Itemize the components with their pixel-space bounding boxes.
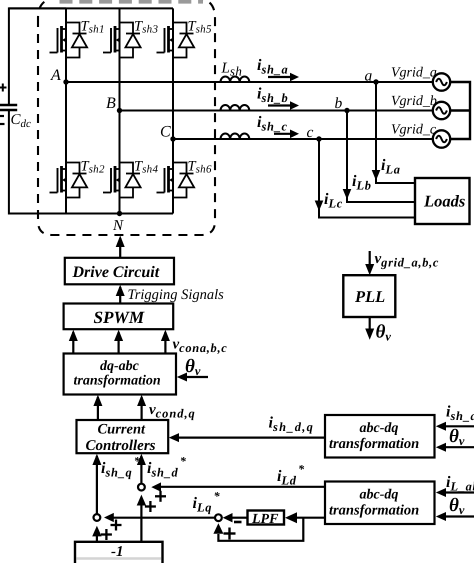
node B xyxy=(106,95,122,113)
svg-text:b: b xyxy=(335,95,343,112)
transistor Tsh1 xyxy=(50,19,105,58)
arrow SPWM to Drive Circuit xyxy=(116,285,125,304)
junction c xyxy=(307,124,322,142)
wire load branch a xyxy=(376,82,415,183)
SPWM box xyxy=(64,304,174,330)
junction b xyxy=(335,95,350,113)
svg-text:Current: Current xyxy=(98,421,147,437)
plus sign S2 bottom input xyxy=(101,529,112,540)
source Vgrid_a xyxy=(391,65,450,90)
arrow dq-abc to SPWM 3 xyxy=(161,330,170,354)
wire i_sh_d,q from abc-dq to Current Controllers xyxy=(169,415,325,443)
plus sign S1 bottom input xyxy=(145,501,156,512)
inductor phase c xyxy=(221,133,250,139)
arrow dq-abc to SPWM 1 xyxy=(69,330,78,354)
wire -1 to S2 xyxy=(92,526,101,542)
wire phase a xyxy=(66,81,433,83)
inverter leg 2 wire xyxy=(119,8,121,213)
wire right neutral bus xyxy=(450,82,470,139)
arrow i_Lc xyxy=(315,191,343,211)
arrow i_Lb xyxy=(343,173,372,200)
svg-text:C: C xyxy=(160,124,171,141)
wire LPF to S3 xyxy=(223,513,248,522)
svg-text:Lsh: Lsh xyxy=(221,61,243,79)
svg-text:B: B xyxy=(106,95,116,112)
wire bus to phase b xyxy=(450,109,470,111)
transistor Tsh3 xyxy=(103,19,158,58)
inverter leg 3 wire xyxy=(172,8,174,213)
DC-link left wire (lower) xyxy=(9,110,66,214)
svg-text:N: N xyxy=(112,218,124,234)
transistor Tsh5 xyxy=(157,19,212,58)
svg-text:abc-dq: abc-dq xyxy=(360,488,399,503)
arrow i_L_abc into abc-dq2 xyxy=(436,474,474,497)
dq-abc transformation box xyxy=(64,354,176,395)
wire phase c xyxy=(173,138,433,140)
plus sign S3 bottom input xyxy=(224,528,236,540)
arrow i_sh_q* into Current Controllers xyxy=(92,454,140,514)
svg-text:Vgrid_b: Vgrid_b xyxy=(391,94,437,109)
LPF box xyxy=(248,511,285,528)
source Vgrid_c xyxy=(391,122,450,147)
DC-link left wire (upper) xyxy=(9,8,66,105)
plus sign S2 right input xyxy=(111,520,122,531)
junction a xyxy=(365,68,379,85)
Drive Circuit box xyxy=(65,258,174,285)
abc-dq transformation box 2 xyxy=(325,482,435,525)
current label i_sh_a with arrow xyxy=(257,57,299,81)
node A xyxy=(50,67,69,85)
arrow CurrentControllers to dq-abc 2 xyxy=(137,395,146,420)
svg-text:transformation: transformation xyxy=(329,502,419,518)
transistor Tsh4 xyxy=(103,159,158,198)
node N xyxy=(112,211,124,234)
wire abc-dq2 to LPF xyxy=(285,512,325,523)
dashed rounded box around shunt inverter xyxy=(38,0,215,235)
wire phase b xyxy=(120,110,434,112)
wire loop to S3 bottom input xyxy=(213,518,303,541)
current label i_sh_c with arrow xyxy=(257,114,299,138)
svg-text:abc-dq: abc-dq xyxy=(360,421,399,436)
top DC rail xyxy=(9,7,173,9)
transistor Tsh2 xyxy=(50,159,105,198)
svg-text:c: c xyxy=(307,124,314,141)
svg-text:Vgrid_c: Vgrid_c xyxy=(391,122,437,137)
PLL box xyxy=(343,275,395,317)
svg-text:Controllers: Controllers xyxy=(86,438,156,454)
capacitor Cdc plates xyxy=(0,105,17,110)
label theta_v into dq-abc xyxy=(177,356,208,382)
svg-text:PLL: PLL xyxy=(354,287,385,306)
svg-text:a: a xyxy=(365,68,373,85)
wire i_Ld* from abc-dq2 to S1 xyxy=(151,462,325,492)
arrow i_sh_abc into abc-dq1 xyxy=(436,404,474,431)
svg-text:Trigging Signals: Trigging Signals xyxy=(128,287,225,303)
plus sign S1 right input xyxy=(155,491,166,502)
current label i_sh_b with arrow xyxy=(257,86,299,110)
summing node S3 xyxy=(215,514,222,521)
arrow into inverter from Drive Circuit xyxy=(116,236,125,258)
arrow i_sh_d* into Current Controllers xyxy=(137,454,187,484)
arrow theta_v into abc-dq1 xyxy=(436,426,474,452)
arrow i_La xyxy=(372,157,401,181)
wire load branch c xyxy=(319,139,415,218)
svg-text:transformation: transformation xyxy=(74,374,161,389)
arrow theta_v into abc-dq2 xyxy=(436,495,474,521)
svg-text:transformation: transformation xyxy=(329,436,419,452)
arrow CurrentControllers to dq-abc 1 xyxy=(93,395,102,420)
summing node S2 xyxy=(94,514,101,521)
wire S3 to S2 (i_Lq*) xyxy=(104,489,221,522)
inductor Lsh phase a xyxy=(221,61,250,83)
-1 box xyxy=(75,542,163,563)
transistor Tsh6 xyxy=(157,159,212,198)
bottom DC rail xyxy=(9,213,173,215)
node C xyxy=(160,124,176,142)
svg-text:-1: -1 xyxy=(111,544,124,560)
Loads box xyxy=(415,178,470,224)
abc-dq transformation box 1 xyxy=(325,415,435,458)
svg-text:dq-abc: dq-abc xyxy=(100,359,140,374)
arrow dq-abc to SPWM 2 xyxy=(114,330,123,354)
svg-text:Loads: Loads xyxy=(423,192,465,211)
plus polarity mark xyxy=(0,84,7,92)
wire -1 to S1 xyxy=(137,495,146,542)
source Vgrid_b xyxy=(391,94,450,119)
svg-text:Drive Circuit: Drive Circuit xyxy=(72,264,160,281)
svg-text:SPWM: SPWM xyxy=(94,308,145,327)
minus sign S3 input xyxy=(234,521,242,524)
grey dashed boundary (cut off at top) xyxy=(60,0,204,4)
svg-text:LPF: LPF xyxy=(251,512,279,527)
inverter leg 1 wire xyxy=(65,8,67,213)
arrow v_grid into PLL xyxy=(365,251,439,275)
summing node S1 xyxy=(138,484,145,491)
svg-text:A: A xyxy=(50,67,61,84)
wire load branch b xyxy=(347,111,415,203)
arrow theta_v out of PLL xyxy=(365,317,391,343)
svg-text:Vgrid_a: Vgrid_a xyxy=(391,65,437,80)
inductor phase b xyxy=(221,105,250,111)
minus polarity mark xyxy=(0,115,4,117)
Current Controllers box xyxy=(77,420,169,454)
